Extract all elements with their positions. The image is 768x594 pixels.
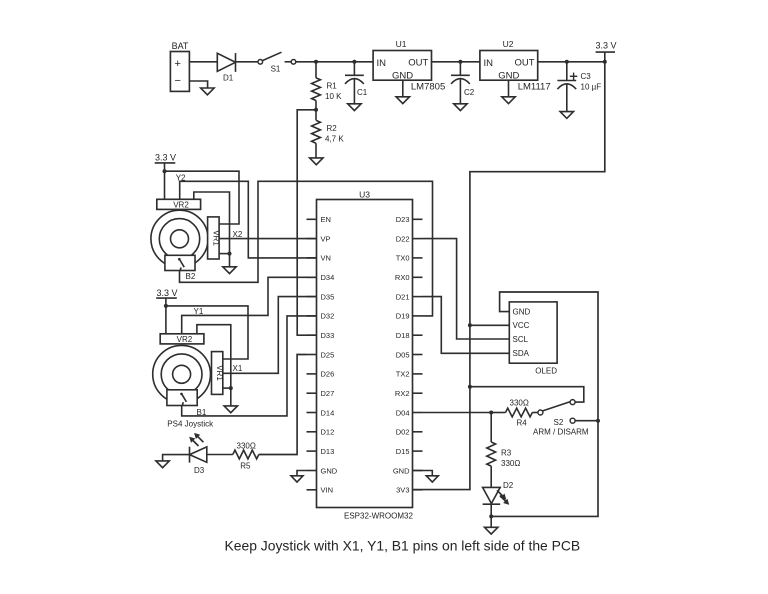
- svg-text:D05: D05: [396, 350, 410, 359]
- svg-text:D22: D22: [396, 234, 410, 243]
- svg-text:C3: C3: [581, 72, 592, 81]
- wire R2 to ground: [315, 143, 317, 158]
- svg-text:Y1: Y1: [194, 307, 204, 316]
- switch S2 ARM/DISARM: [533, 400, 589, 437]
- node B1 label: [197, 408, 207, 417]
- ground (D2): [485, 527, 498, 534]
- battery BAT: [170, 52, 189, 92]
- wire R3 top lead: [490, 413, 492, 443]
- svg-text:VCC: VCC: [513, 321, 530, 330]
- wire R5 to D3: [207, 454, 233, 456]
- LED D2: [483, 481, 514, 505]
- joystick knob circles (J2): [151, 210, 208, 267]
- svg-text:VR1: VR1: [211, 230, 220, 246]
- svg-text:GND: GND: [321, 466, 338, 475]
- ground (C2): [454, 104, 467, 111]
- wire S2 lower contact to ground net: [575, 420, 598, 422]
- svg-text:D33: D33: [321, 331, 335, 340]
- svg-text:3.3 V: 3.3 V: [155, 153, 176, 163]
- svg-text:3.3 V: 3.3 V: [595, 41, 616, 51]
- svg-text:TX2: TX2: [396, 370, 410, 379]
- svg-text:LM7805: LM7805: [411, 82, 445, 93]
- power 3.3V (joystick 2 / X2-Y2): [155, 153, 176, 200]
- svg-text:D13: D13: [321, 447, 335, 456]
- svg-text:Y2: Y2: [176, 173, 186, 182]
- wire 3.3V to OLED VCC: [470, 324, 509, 326]
- svg-text:3V3: 3V3: [396, 486, 409, 495]
- junction node VBAT at R1: [314, 60, 318, 64]
- ground (R2): [310, 158, 323, 165]
- svg-text:D02: D02: [396, 428, 410, 437]
- resistor R5: [233, 442, 259, 471]
- svg-text:D1: D1: [223, 73, 234, 82]
- node Y2 wire to VN: [180, 181, 317, 258]
- svg-text:IN: IN: [484, 58, 494, 69]
- svg-text:GND: GND: [392, 70, 413, 81]
- wire 3.3V to VR1 top pin (J1): [166, 306, 248, 359]
- svg-text:OLED: OLED: [535, 366, 557, 375]
- svg-text:VP: VP: [321, 234, 331, 243]
- power 3.3V (top right): [595, 41, 616, 62]
- potentiometer VR2 (J2): [157, 199, 201, 209]
- U3 left pin stubs: [307, 219, 317, 490]
- svg-text:R5: R5: [240, 462, 251, 471]
- wire VR1 gnd pin (J2): [219, 253, 229, 255]
- wire D25 to R5: [259, 355, 307, 455]
- junction 3.3V at S2 feed: [468, 385, 472, 389]
- LED D3: [189, 433, 207, 475]
- resistor R3: [487, 442, 521, 468]
- junction at C1: [352, 60, 356, 64]
- wire D21 to OLED SDA: [423, 297, 510, 354]
- joystick knob circles (J1): [153, 345, 211, 403]
- OLED module box: [509, 302, 557, 375]
- svg-text:GND: GND: [393, 466, 410, 475]
- wire S1 to node VBAT: [296, 61, 373, 63]
- svg-text:B2: B2: [186, 272, 196, 281]
- svg-text:R2: R2: [327, 124, 338, 133]
- svg-text:C1: C1: [357, 88, 368, 97]
- svg-text:ESP32-WROOM32: ESP32-WROOM32: [344, 512, 413, 521]
- node Y1 label: [194, 307, 204, 316]
- junction divider node: [314, 108, 318, 112]
- svg-text:S1: S1: [271, 65, 281, 74]
- wire D04 to R4 node: [423, 412, 492, 414]
- svg-text:D12: D12: [321, 428, 335, 437]
- svg-text:D19: D19: [396, 312, 410, 321]
- svg-text:GND: GND: [498, 70, 519, 81]
- svg-text:R4: R4: [517, 419, 528, 428]
- wire D1 to S1: [236, 61, 259, 63]
- wire U3 left GND to ground: [297, 471, 307, 476]
- svg-text:U1: U1: [396, 39, 407, 49]
- svg-text:PS4 Joystick: PS4 Joystick: [167, 419, 214, 428]
- junction 3.3V joystick1: [164, 304, 168, 308]
- svg-text:ARM / DISARM: ARM / DISARM: [533, 428, 589, 437]
- svg-text:R1: R1: [327, 82, 338, 91]
- svg-text:10 µF: 10 µF: [581, 82, 602, 91]
- junction 3.3V joystick2: [163, 169, 167, 173]
- svg-text:D18: D18: [396, 331, 410, 340]
- junction 3.3V at OLED VCC: [468, 323, 472, 327]
- svg-text:RX0: RX0: [395, 273, 410, 282]
- node X1 wire to D35: [223, 297, 317, 374]
- node X2 wire to VP: [219, 238, 316, 240]
- svg-text:D14: D14: [321, 408, 335, 417]
- wire VR1 gnd pin (J1): [223, 387, 231, 389]
- wire C2 stem: [459, 62, 461, 104]
- svg-text:TX0: TX0: [396, 254, 410, 263]
- svg-text:U2: U2: [503, 39, 514, 49]
- wire battery- to ground: [189, 81, 207, 88]
- battery BAT label: [172, 41, 189, 51]
- wire U1 OUT to U2 IN: [432, 61, 480, 63]
- svg-text:330Ω: 330Ω: [237, 442, 256, 451]
- junction gnd J2: [228, 252, 232, 256]
- svg-text:D26: D26: [321, 370, 335, 379]
- junction gnd J1: [229, 386, 233, 390]
- ground (C3): [560, 112, 573, 119]
- svg-text:−: −: [174, 75, 180, 87]
- wire gnd stem J2: [229, 254, 231, 267]
- svg-text:X1: X1: [233, 364, 243, 373]
- ground (joystick1): [224, 406, 237, 413]
- svg-text:330Ω: 330Ω: [510, 398, 529, 407]
- capacitor C3 10uF: [557, 72, 601, 91]
- wire D3 to ground: [163, 455, 190, 461]
- resistor R4: [506, 398, 533, 427]
- junction 3.3V node: [603, 60, 607, 64]
- svg-text:D34: D34: [321, 273, 335, 282]
- wire battery+ to D1: [189, 61, 217, 63]
- svg-text:Keep Joystick with X1, Y1, B1: Keep Joystick with X1, Y1, B1 pins on le…: [225, 538, 581, 554]
- junction ground net at S2: [596, 419, 600, 423]
- node X1 label: [233, 364, 243, 373]
- svg-text:VN: VN: [321, 254, 331, 263]
- svg-text:RX2: RX2: [395, 389, 410, 398]
- push button B2: [165, 255, 195, 270]
- ground (U2): [502, 97, 515, 104]
- capacitor C2: [451, 75, 475, 97]
- resistor R2: [312, 120, 345, 143]
- wire C3 stem: [566, 62, 568, 112]
- node B2 wire to D19: [180, 181, 433, 316]
- caption text: [225, 538, 581, 554]
- svg-text:D25: D25: [321, 350, 335, 359]
- svg-text:D21: D21: [396, 292, 410, 301]
- svg-text:D2: D2: [503, 481, 514, 490]
- svg-text:3.3 V: 3.3 V: [156, 288, 177, 298]
- wire 3.3V to S2 upper contact: [470, 387, 584, 402]
- label PS4 Joystick: [167, 419, 214, 428]
- node X2 label: [233, 230, 243, 239]
- junction D2 ground node: [489, 514, 493, 518]
- svg-text:VR2: VR2: [173, 201, 189, 210]
- node B1 wire to D32: [182, 316, 317, 416]
- node Y1 wire to D34: [182, 277, 317, 334]
- wire U3 right GND to ground: [413, 471, 433, 476]
- wire gnd stem J1: [230, 388, 232, 406]
- svg-text:D04: D04: [396, 408, 410, 417]
- resistor R1: [312, 78, 343, 101]
- ground (U3 right GND): [426, 476, 438, 482]
- svg-text:VR1: VR1: [215, 365, 224, 381]
- svg-text:D32: D32: [321, 312, 335, 321]
- wire OLED GND loop to ground net: [491, 292, 598, 516]
- wire U2 GND stem: [508, 80, 510, 97]
- potentiometer VR1 (J2): [208, 217, 221, 259]
- node B2 label: [186, 272, 196, 281]
- wire VR2 gnd loop (J2): [194, 192, 230, 254]
- regulator U2 LM1117: [480, 39, 551, 92]
- svg-text:LM1117: LM1117: [518, 82, 551, 93]
- junction node D04/R4/R3: [489, 411, 493, 415]
- junction at C2: [458, 60, 462, 64]
- wire 3.3V rail to 3V3 pin: [413, 62, 605, 490]
- wire 3.3V to VR1 top pin (J2): [165, 171, 240, 224]
- svg-text:D15: D15: [396, 447, 410, 456]
- svg-text:C2: C2: [464, 88, 475, 97]
- wire D2 to ground node: [490, 504, 492, 527]
- svg-text:10 K: 10 K: [325, 92, 342, 101]
- ground (D3): [156, 461, 169, 468]
- ground (U3 left GND): [291, 476, 303, 482]
- U3 left pin labels: [321, 215, 338, 495]
- potentiometer VR1 (J1): [212, 352, 225, 395]
- svg-text:D23: D23: [396, 215, 410, 224]
- power 3.3V (joystick 1 / X1-Y1): [156, 288, 177, 334]
- svg-text:4,7 K: 4,7 K: [325, 135, 344, 144]
- svg-text:EN: EN: [321, 215, 331, 224]
- svg-text:GND: GND: [513, 308, 531, 317]
- switch S1: [258, 52, 296, 73]
- potentiometer VR2 (J1): [160, 334, 204, 344]
- svg-text:B1: B1: [197, 408, 207, 417]
- wire D22 to OLED SCL: [423, 239, 510, 339]
- capacitor C1: [345, 75, 368, 97]
- wire VR2 gnd loop (J1): [197, 325, 231, 388]
- regulator U1 LM7805: [373, 39, 445, 92]
- svg-text:+: +: [174, 58, 180, 70]
- svg-text:D27: D27: [321, 389, 335, 398]
- node Y2 label: [176, 173, 186, 182]
- svg-text:VR2: VR2: [177, 335, 193, 344]
- wire C1 stem: [353, 62, 355, 104]
- svg-text:IN: IN: [377, 58, 387, 69]
- wire R1 top lead: [315, 62, 317, 78]
- U3 right pin stubs: [413, 219, 423, 490]
- ground (C1): [348, 104, 361, 111]
- svg-text:SCL: SCL: [513, 335, 529, 344]
- svg-text:R3: R3: [501, 449, 512, 458]
- wire divider tap to D33: [297, 110, 316, 335]
- svg-text:SDA: SDA: [513, 349, 530, 358]
- push button B1: [167, 390, 197, 406]
- junction at C3: [565, 60, 569, 64]
- wire U1 GND stem: [402, 80, 404, 97]
- wire R1 bottom to divider node: [315, 101, 317, 121]
- svg-text:OUT: OUT: [408, 57, 428, 68]
- svg-text:U3: U3: [359, 190, 370, 200]
- op-amp? no - MCU U3 ESP32-WROOM32 body: [317, 190, 414, 521]
- svg-text:D3: D3: [194, 466, 205, 475]
- ground (battery): [201, 88, 214, 95]
- U3 right pin labels: [393, 215, 410, 495]
- svg-text:330Ω: 330Ω: [501, 459, 520, 468]
- wire R4 leads: [491, 412, 538, 414]
- svg-text:VIN: VIN: [321, 486, 334, 495]
- svg-text:OUT: OUT: [515, 57, 535, 68]
- svg-text:D35: D35: [321, 292, 335, 301]
- ground (joystick2): [223, 267, 236, 274]
- diode D1: [217, 53, 235, 82]
- svg-text:S2: S2: [554, 418, 564, 427]
- wire R3 to LED D2: [490, 466, 492, 487]
- svg-text:X2: X2: [233, 230, 243, 239]
- svg-text:BAT: BAT: [172, 41, 189, 51]
- wire U2 OUT to 3.3V node: [538, 61, 605, 63]
- ground (U1): [396, 97, 409, 104]
